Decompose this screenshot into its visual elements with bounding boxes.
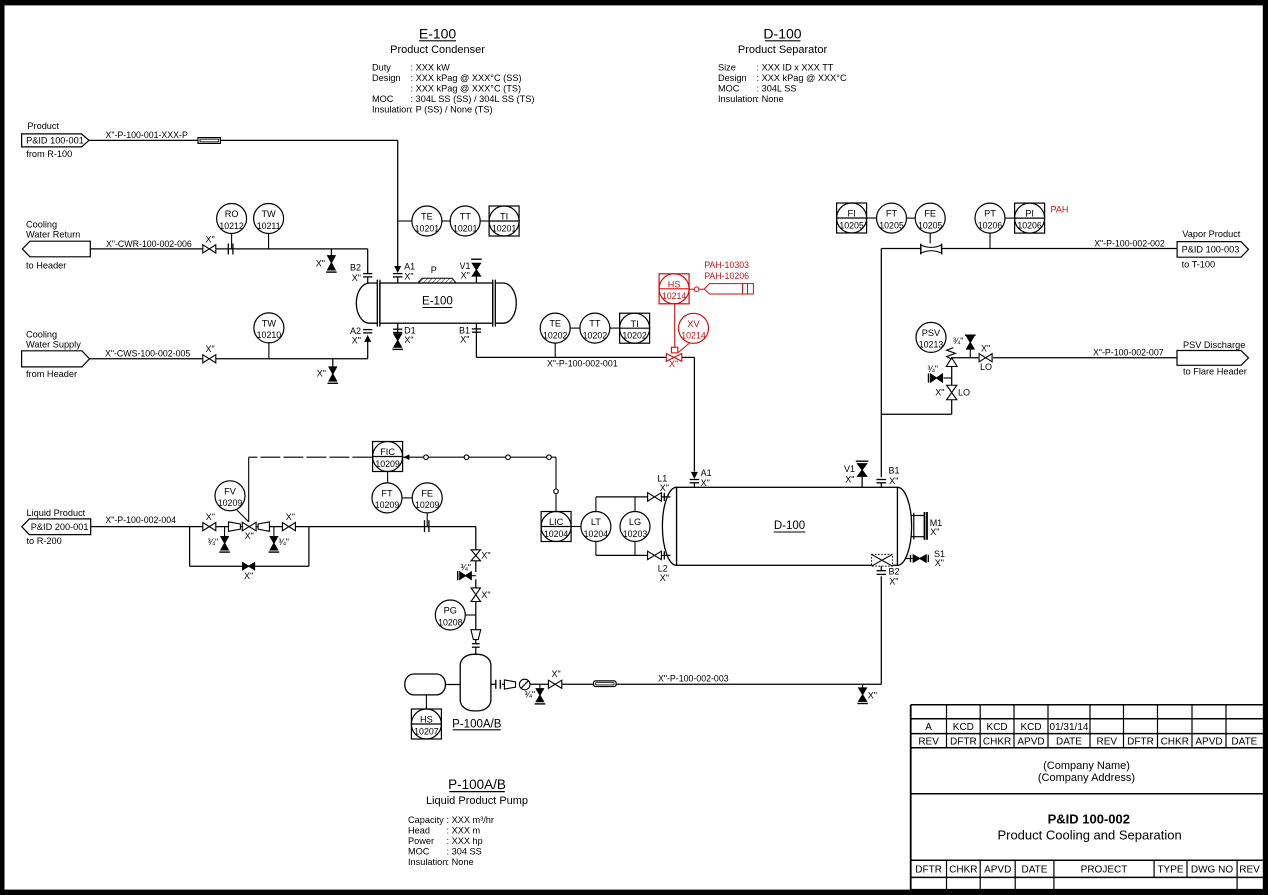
svg-text:P&ID 100-003: P&ID 100-003 (1182, 245, 1240, 255)
data link FIC-10209 to LIC-10204 (403, 454, 558, 511)
svg-text:X": X" (316, 259, 325, 269)
svg-text:LO: LO (958, 388, 970, 398)
svg-text:P-100A/B: P-100A/B (448, 777, 506, 792)
svg-text:10202: 10202 (622, 331, 647, 341)
gate valve X" LO on PSV inlet (935, 385, 970, 400)
valve S1 D-100 (906, 549, 946, 568)
svg-text:(Company Address): (Company Address) (1038, 772, 1135, 784)
drawing title P&ID 100-002 (997, 812, 1181, 843)
svg-text:X": X" (206, 234, 215, 244)
svg-text:CHKR: CHKR (949, 864, 977, 875)
instrument FI-10205 (837, 203, 867, 233)
instrument RO-10212 (217, 204, 247, 249)
svg-text:: XXX hp: : XXX hp (447, 836, 483, 846)
svg-text:X": X" (460, 335, 469, 345)
svg-text:X": X" (845, 475, 854, 485)
svg-text:P&ID 200-001: P&ID 200-001 (31, 522, 89, 532)
bleed valve 3/4" on PSV inlet (927, 364, 951, 383)
gate valve X" downstream of FV (282, 512, 295, 531)
svg-text:from R-100: from R-100 (26, 149, 72, 159)
svg-text:V1: V1 (459, 261, 470, 271)
svg-text:FI: FI (848, 209, 856, 219)
heat exchanger E-100 (356, 280, 516, 327)
vent valve V1 D-100 (844, 461, 868, 487)
svg-text:: XXX m: : XXX m (447, 826, 481, 836)
svg-text:X": X" (317, 369, 326, 379)
svg-text:E-100: E-100 (422, 296, 453, 308)
instrument TI-10201 (480, 206, 519, 236)
svg-text:B2: B2 (350, 263, 361, 273)
svg-text:Power: Power (408, 836, 434, 846)
instrument TW-10211 (254, 204, 284, 249)
nozzle A2 E-100 with supply arrow (350, 326, 372, 346)
svg-text:10214: 10214 (681, 331, 706, 341)
instrument TW-10210 (254, 313, 284, 359)
pipe cooling water supply X"-CWS-100-002-005 (90, 342, 368, 359)
svg-text:X"-P-100-002-001: X"-P-100-002-001 (547, 359, 618, 369)
svg-text:to R-200: to R-200 (27, 536, 62, 546)
svg-text:X": X" (701, 478, 710, 488)
svg-text:FT: FT (886, 209, 898, 219)
svg-text:X"-P-100-002-002: X"-P-100-002-002 (1094, 238, 1165, 248)
svg-text:KCD: KCD (987, 722, 1008, 733)
orifice flanges RO-10212 (228, 244, 233, 255)
svg-text:Product Cooling and Separation: Product Cooling and Separation (997, 828, 1181, 843)
svg-text:: XXX kPag @ XXX°C (TS): : XXX kPag @ XXX°C (TS) (411, 84, 522, 94)
svg-text:P: P (431, 265, 437, 275)
gate valve X" on CWR line (203, 234, 216, 253)
svg-text:TE: TE (421, 212, 433, 222)
svg-text:Vapor Product: Vapor Product (1182, 229, 1240, 239)
svg-text:10206: 10206 (1017, 220, 1042, 230)
svg-text:X"-P-100-001-XXX-P: X"-P-100-001-XXX-P (106, 130, 188, 140)
svg-text:Water Supply: Water Supply (26, 340, 81, 350)
svg-text:¾": ¾" (278, 537, 289, 547)
svg-text:X"-P-100-002-004: X"-P-100-002-004 (105, 515, 176, 525)
instrument TT-10202 (570, 313, 610, 343)
svg-text:MOC: MOC (408, 847, 430, 857)
svg-text:E-100: E-100 (419, 26, 457, 42)
pipe E-100 outlet X"-P-100-002-001 (476, 357, 694, 471)
svg-text:Head: Head (408, 826, 430, 836)
flange pair pump discharge (472, 644, 480, 648)
D-100 spec list (718, 63, 847, 105)
instrument LIC-10204 (541, 512, 581, 542)
svg-text:P&ID 100-001: P&ID 100-001 (26, 136, 84, 146)
svg-text:FIC: FIC (380, 447, 395, 457)
pad P on E-100 shell (418, 265, 456, 283)
svg-text:TT: TT (460, 212, 472, 222)
gate valve X" discharge upper (471, 550, 491, 561)
off-page connector Cooling Water Return to Header (22, 220, 90, 271)
instrument XV-10214 (679, 313, 709, 343)
svg-text:X": X" (935, 388, 944, 398)
svg-text:10201: 10201 (415, 223, 440, 233)
svg-text:PROJECT: PROJECT (1081, 864, 1128, 875)
svg-text:¾": ¾" (207, 537, 218, 547)
svg-text:Design: Design (372, 73, 401, 83)
svg-text:X": X" (935, 558, 944, 568)
svg-text:Insulation: Insulation (408, 857, 447, 867)
svg-text:(Company Name): (Company Name) (1043, 760, 1130, 772)
gate valve X" discharge lower (471, 588, 491, 602)
bypass pipe around FV-10209 (190, 527, 309, 567)
svg-text:: None: : None (757, 94, 784, 104)
svg-text:B1: B1 (889, 466, 900, 476)
instrument HS-10214 (interlock) (659, 274, 689, 304)
instrument TE-10202 (540, 313, 570, 357)
instrument PSV-10213 (916, 322, 946, 352)
svg-text:: XXX m³/hr: : XXX m³/hr (447, 815, 494, 825)
svg-text:REV: REV (1096, 737, 1117, 748)
svg-text:: 304L SS: : 304L SS (757, 84, 797, 94)
svg-text:LT: LT (591, 517, 601, 527)
svg-text:: XXX kW: : XXX kW (411, 63, 451, 73)
title block footer row (915, 864, 1260, 875)
svg-text:Product Condenser: Product Condenser (390, 44, 485, 56)
vent valve 3/4" on PSV outlet (953, 335, 976, 358)
svg-text:Cooling: Cooling (26, 220, 57, 230)
svg-text:APVD: APVD (1195, 737, 1222, 748)
svg-text:: XXX kPag @ XXX°C: : XXX kPag @ XXX°C (757, 73, 847, 83)
svg-text:Product Separator: Product Separator (738, 44, 828, 56)
motor of P-100A/B (405, 674, 460, 695)
company name block (1038, 760, 1135, 784)
svg-text:FE: FE (421, 489, 433, 499)
svg-text:A2: A2 (350, 326, 361, 336)
drain valve on CWS line (317, 359, 338, 384)
level bridle L1 (596, 474, 671, 502)
svg-text:PT: PT (984, 209, 996, 219)
svg-text:LG: LG (629, 517, 641, 527)
svg-text:: XXX ID x XXX TT: : XXX ID x XXX TT (757, 63, 834, 73)
revision row A KCD KCD KCD 01/31/14 (918, 722, 1257, 748)
orifice flanges FE-10209 (425, 520, 429, 532)
svg-text:HS: HS (420, 715, 433, 725)
svg-text:X": X" (669, 359, 678, 369)
svg-text:Duty: Duty (372, 63, 391, 73)
svg-text:DATE: DATE (1231, 737, 1257, 748)
svg-text:10209: 10209 (375, 459, 400, 469)
svg-text:X": X" (552, 669, 561, 679)
alarm horn PAH-10303 / PAH-10206 (689, 284, 753, 294)
instrument HS-10207 (411, 695, 441, 739)
svg-text:10214: 10214 (662, 291, 687, 301)
svg-text:10201: 10201 (453, 223, 478, 233)
instrument LG-10203 (620, 497, 650, 556)
svg-text:to T-100: to T-100 (1182, 260, 1216, 270)
vortex breaker D-100 (872, 554, 893, 566)
svg-text:P&ID 100-002: P&ID 100-002 (1048, 812, 1130, 827)
svg-text:DATE: DATE (1056, 737, 1082, 748)
signal line FIC-10209 to FV-10209 (249, 457, 373, 522)
svg-text:PG: PG (444, 606, 457, 616)
instrument FIC-10209 (373, 442, 403, 472)
P-100A/B spec list (408, 815, 494, 867)
drain valve 3/4" left of FV (207, 527, 229, 553)
svg-text:10203: 10203 (623, 529, 648, 539)
pump P-100A/B (452, 654, 502, 730)
svg-text:REV: REV (918, 737, 939, 748)
svg-text:TI: TI (500, 212, 508, 222)
svg-text:X"-P-100-002-003: X"-P-100-002-003 (658, 673, 729, 683)
instrument TE-10201 (398, 206, 442, 236)
instrument PG-10208 (435, 600, 476, 630)
svg-text:10213: 10213 (919, 340, 944, 350)
drain valve 3/4" right of FV (269, 527, 289, 553)
relief valve PSV-10213 (946, 348, 978, 367)
svg-text:Cooling: Cooling (26, 330, 57, 340)
title block E-100 header (390, 26, 485, 57)
nozzle B1 E-100 (459, 323, 481, 357)
svg-text:¾": ¾" (524, 690, 535, 700)
svg-text:V1: V1 (844, 464, 855, 474)
gate valve X" pump suction (548, 669, 561, 688)
svg-text:D-100: D-100 (763, 26, 801, 42)
svg-text:10204: 10204 (584, 529, 609, 539)
svg-text:TT: TT (589, 319, 601, 329)
manway M1 D-100 (912, 512, 943, 540)
instrument PT-10206 (975, 203, 1005, 248)
instrument TI-10202 (610, 313, 650, 343)
svg-text:X": X" (981, 343, 990, 353)
svg-text:FE: FE (924, 209, 936, 219)
svg-text:X": X" (206, 512, 215, 522)
off-page connector PSV Discharge to Flare Header (1177, 340, 1249, 377)
svg-text:10205: 10205 (918, 220, 943, 230)
svg-text:LIC: LIC (549, 517, 564, 527)
svg-text:10205: 10205 (879, 220, 904, 230)
title block P-100A/B header (426, 777, 528, 807)
svg-text:KCD: KCD (1020, 722, 1041, 733)
svg-text:: None: : None (447, 857, 474, 867)
svg-text:X": X" (889, 577, 898, 587)
off-page connector Vapor Product to T-100 (1177, 229, 1248, 270)
drain valve on CWR line (316, 249, 337, 272)
drain valve X" on suction header (857, 684, 877, 703)
svg-text:10207: 10207 (414, 726, 439, 736)
svg-text:DWG NO: DWG NO (1191, 864, 1233, 875)
instrument PI-10206 (1005, 203, 1045, 233)
svg-text:X": X" (245, 531, 254, 541)
svg-text:Product: Product (27, 121, 59, 131)
separator D-100 (662, 487, 911, 565)
svg-text:D1: D1 (404, 326, 416, 336)
svg-text:10206: 10206 (978, 220, 1003, 230)
svg-text:from Header: from Header (26, 369, 77, 379)
inline spool on product feed line (198, 138, 220, 144)
svg-text:X": X" (352, 336, 361, 346)
svg-text:PAH: PAH (1051, 205, 1069, 215)
svg-text:X": X" (244, 571, 253, 581)
svg-text:APVD: APVD (984, 864, 1011, 875)
reducer pump suction (504, 680, 515, 689)
svg-text:Insulation: Insulation (372, 105, 411, 115)
pipe liquid product X"-P-100-002-004 (91, 515, 476, 550)
vent valve V1 E-100 (459, 259, 481, 283)
gate valve X" upstream of FV (203, 512, 216, 531)
nozzle B2 E-100 (350, 263, 372, 284)
instrument FT-10209 (372, 472, 402, 513)
svg-text:Liquid Product: Liquid Product (27, 508, 86, 518)
svg-text:to Flare Header: to Flare Header (1183, 367, 1247, 377)
svg-text:A1: A1 (701, 468, 712, 478)
reducer on pump discharge (471, 630, 481, 640)
svg-text:10204: 10204 (544, 529, 569, 539)
svg-text:B2: B2 (889, 567, 900, 577)
svg-text:TW: TW (261, 209, 276, 219)
svg-text:X": X" (206, 344, 215, 354)
nozzle A1 D-100 with feed arrow (690, 468, 712, 488)
svg-text:X"-P-100-002-007: X"-P-100-002-007 (1093, 347, 1164, 357)
control valve FV-10209 body with reducers (229, 522, 270, 541)
svg-text:MOC: MOC (718, 84, 740, 94)
svg-text:¾": ¾" (953, 336, 964, 346)
drain valve 3/4" pump suction (524, 684, 545, 704)
pipe PSV inlet branch (881, 367, 951, 415)
svg-text:X": X" (404, 272, 413, 282)
svg-text:10205: 10205 (839, 220, 864, 230)
svg-text:: XXX kPag @ XXX°C (SS): : XXX kPag @ XXX°C (SS) (411, 73, 522, 83)
pipe pump suction X"-P-100-002-003 (491, 576, 881, 684)
svg-text:Capacity: Capacity (408, 815, 444, 825)
svg-text:X"-CWS-100-002-005: X"-CWS-100-002-005 (105, 348, 190, 358)
svg-text:X": X" (352, 273, 361, 283)
svg-text:X": X" (481, 550, 490, 560)
svg-text:01/31/14: 01/31/14 (1050, 722, 1089, 733)
svg-text:X": X" (660, 483, 669, 493)
svg-text:: 304 SS: : 304 SS (447, 847, 482, 857)
svg-text:KCD: KCD (953, 722, 974, 733)
gate valve X" LO on PSV outlet (979, 343, 992, 372)
svg-text:: P (SS) / None (TS): : P (SS) / None (TS) (411, 105, 493, 115)
instrument FT-10205 (867, 203, 907, 233)
svg-text:X": X" (868, 691, 877, 701)
bypass globe valve X" (243, 563, 255, 581)
level bridle L2 (596, 551, 671, 583)
instrument TT-10201 (442, 206, 480, 236)
svg-text:CHKR: CHKR (1161, 737, 1189, 748)
svg-text:D-100: D-100 (774, 520, 805, 532)
E-100 spec list (372, 63, 534, 115)
svg-text:PAH-10206: PAH-10206 (704, 271, 749, 281)
svg-text:10202: 10202 (583, 330, 608, 340)
svg-text:PI: PI (1025, 209, 1034, 219)
svg-text:10202: 10202 (543, 330, 568, 340)
nozzle B1 D-100 (877, 466, 900, 488)
off-page connector Product from R-100 (22, 121, 89, 159)
svg-text:Liquid Product Pump: Liquid Product Pump (426, 795, 528, 807)
bleed valve 3/4" on discharge (458, 563, 476, 581)
svg-text:Insulation: Insulation (718, 94, 757, 104)
svg-text:X": X" (660, 573, 669, 583)
pipe vapor product X"-P-100-002-002 (881, 238, 1177, 477)
inline spool pump suction (594, 681, 617, 687)
svg-text:PAH-10303: PAH-10303 (704, 260, 749, 270)
svg-text:PSV: PSV (922, 328, 941, 338)
svg-text:to Header: to Header (26, 261, 66, 271)
instrument FV-10209 (215, 481, 249, 522)
shutdown valve XV-10214 body with actuator (666, 304, 689, 370)
nozzle A1 E-100 with feed arrow (393, 262, 415, 284)
svg-text:10209: 10209 (375, 500, 400, 510)
instrument FE-10209 (402, 483, 442, 527)
pipe product feed X"-P-100-001-XXX-P (89, 130, 398, 267)
svg-text:DATE: DATE (1022, 864, 1048, 875)
svg-text:DFTR: DFTR (1127, 737, 1154, 748)
svg-text:P-100A/B: P-100A/B (452, 718, 502, 730)
svg-text:10208: 10208 (438, 617, 463, 627)
svg-text:XV: XV (687, 319, 700, 329)
svg-text:FV: FV (224, 486, 237, 496)
svg-text:10209: 10209 (218, 498, 243, 508)
svg-text:REV: REV (1239, 864, 1260, 875)
svg-text:X"-CWR-100-002-006: X"-CWR-100-002-006 (106, 239, 192, 249)
svg-text:: 304L SS (SS) / 304L SS (TS): : 304L SS (SS) / 304L SS (TS) (411, 94, 535, 104)
nozzle B2 D-100 (877, 566, 900, 586)
pipe PSV discharge X"-P-100-002-007 (993, 347, 1177, 357)
off-page connector Cooling Water Supply from Header (22, 330, 90, 380)
svg-text:PSV Discharge: PSV Discharge (1183, 340, 1245, 350)
svg-text:TE: TE (549, 319, 561, 329)
svg-text:10201: 10201 (492, 223, 517, 233)
svg-text:Water Return: Water Return (26, 230, 80, 240)
svg-text:A1: A1 (404, 262, 415, 272)
svg-text:TI: TI (631, 319, 639, 329)
svg-text:10211: 10211 (257, 221, 281, 231)
svg-text:X": X" (286, 512, 295, 522)
svg-text:10209: 10209 (415, 500, 440, 510)
svg-text:FT: FT (381, 489, 393, 499)
pipe cooling water return X"-CWR-100-002-006 (90, 239, 367, 273)
svg-text:LO: LO (980, 362, 992, 372)
svg-text:Design: Design (718, 73, 747, 83)
svg-text:Size: Size (718, 63, 736, 73)
gate valve X" on CWS line (203, 344, 216, 363)
instrument LT-10204 (581, 497, 611, 556)
svg-text:X": X" (461, 271, 470, 281)
svg-text:MOC: MOC (372, 94, 394, 104)
svg-text:TYPE: TYPE (1157, 864, 1183, 875)
svg-text:RO: RO (225, 209, 239, 219)
strainer pump suction (519, 679, 530, 690)
svg-text:¾": ¾" (460, 563, 471, 573)
svg-text:X": X" (930, 527, 939, 537)
svg-text:TW: TW (262, 319, 277, 329)
svg-text:DFTR: DFTR (915, 864, 942, 875)
off-page connector Liquid Product to R-200 (22, 508, 91, 546)
title block (911, 705, 1263, 890)
svg-text:X": X" (889, 476, 898, 486)
svg-text:10212: 10212 (219, 221, 244, 231)
svg-text:10210: 10210 (257, 330, 282, 340)
instrument FE-10205 (907, 203, 946, 243)
svg-text:A: A (925, 722, 932, 733)
drain valve D1 E-100 (392, 323, 415, 349)
flow element venturi FE-10205 (921, 244, 942, 255)
title block D-100 header (738, 26, 828, 57)
pipe pump discharge riser (475, 561, 477, 654)
svg-text:X": X" (481, 590, 490, 600)
svg-text:HS: HS (668, 279, 681, 289)
svg-text:X": X" (404, 335, 413, 345)
svg-text:CHKR: CHKR (983, 737, 1011, 748)
svg-text:DFTR: DFTR (950, 737, 977, 748)
svg-text:¾": ¾" (927, 364, 938, 374)
flange pair pump suction (496, 680, 501, 689)
svg-text:APVD: APVD (1017, 737, 1044, 748)
